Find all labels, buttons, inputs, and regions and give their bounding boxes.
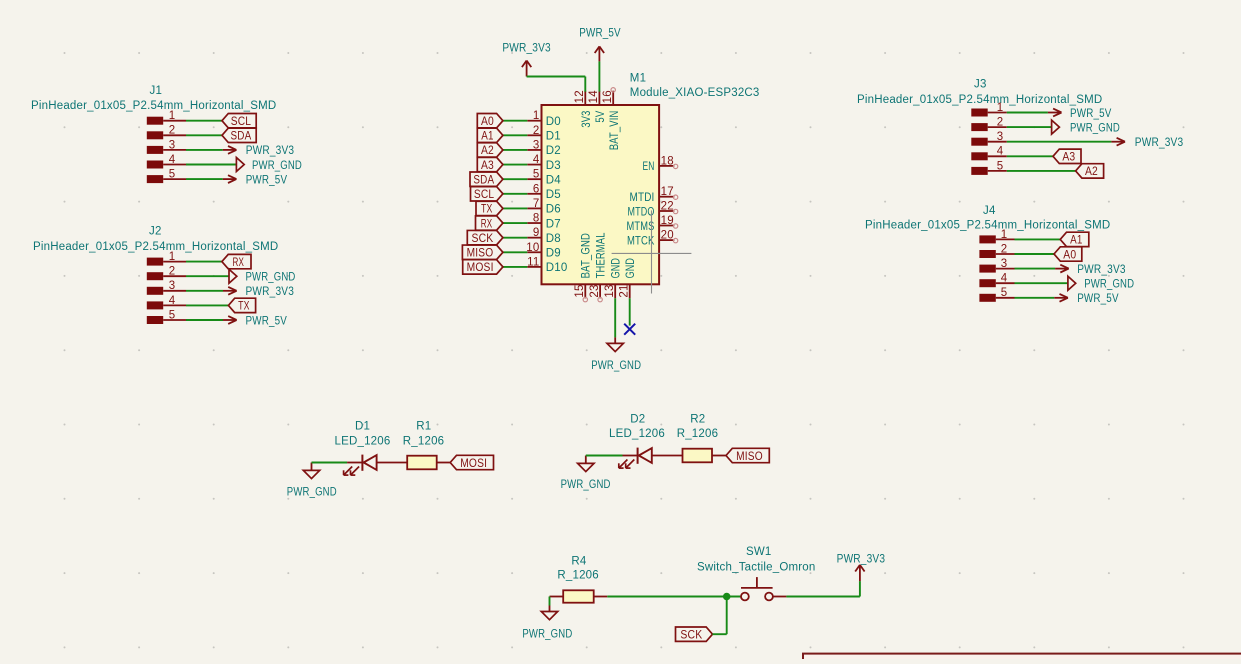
svg-text:THERMAL: THERMAL [595, 232, 607, 278]
svg-text:PWR_GND: PWR_GND [252, 160, 302, 172]
M1 pin 14 stub [598, 91, 600, 105]
resistor R1 [407, 456, 437, 470]
M1 pin 16 stub [612, 91, 614, 105]
wire J1.1 to SCL [186, 120, 222, 122]
wire J1.2 to SDA [186, 134, 222, 136]
svg-text:A1: A1 [1070, 235, 1082, 247]
global label SDA [222, 128, 256, 143]
M1 pin 15 dangling end [583, 297, 587, 301]
M1 pin 20 stub [659, 239, 674, 241]
svg-text:SDA: SDA [231, 131, 252, 143]
svg-text:GND: GND [610, 258, 622, 279]
svg-text:J3: J3 [974, 79, 987, 91]
power symbol PWR_3V3 (J4.3) [1055, 265, 1069, 273]
power symbol PWR_GND (J1.4) [236, 158, 244, 172]
J3 pad pin 3 [971, 138, 987, 146]
svg-text:3: 3 [997, 131, 1004, 143]
svg-text:D7: D7 [546, 218, 561, 230]
svg-text:PWR_3V3: PWR_3V3 [246, 286, 295, 298]
global label TX [476, 201, 503, 216]
svg-text:3V3: 3V3 [581, 111, 593, 128]
global label MISO [462, 245, 503, 259]
wire J3.1 to PWR_5V [1007, 112, 1048, 114]
svg-text:5: 5 [1001, 287, 1008, 299]
M1 pin 19 stub [659, 225, 674, 227]
LED D1 [344, 455, 377, 476]
svg-text:1: 1 [169, 110, 176, 122]
svg-text:17: 17 [661, 186, 674, 198]
M1 pin 3 (D2) line [527, 149, 541, 151]
svg-text:Module_XIAO-ESP32C3: Module_XIAO-ESP32C3 [630, 87, 760, 99]
wire J4.1 to A1 [1015, 238, 1061, 240]
M1 pin 9 (D8) line [527, 237, 541, 239]
wire A3 to M1 pin 4 [503, 164, 527, 166]
global label A3 [1053, 149, 1081, 164]
svg-text:4: 4 [1001, 273, 1008, 285]
global label RX [476, 216, 503, 231]
svg-text:6: 6 [533, 183, 540, 195]
J2 pin 2 line [163, 275, 186, 277]
M1 pin 23 stub [599, 284, 601, 298]
svg-text:PinHeader_01x05_P2.54mm_Horizo: PinHeader_01x05_P2.54mm_Horizontal_SMD [857, 94, 1102, 106]
svg-text:2: 2 [1001, 243, 1008, 255]
svg-text:4: 4 [533, 154, 540, 166]
svg-text:D2: D2 [546, 145, 561, 157]
svg-text:13: 13 [604, 284, 616, 297]
wire SW1 to PWR_3V3 (horizontal) [786, 596, 860, 598]
J2 pin 5 line [163, 319, 186, 321]
svg-text:SW1: SW1 [746, 546, 772, 558]
M1 pin 17 stub [659, 196, 674, 198]
svg-text:11: 11 [527, 256, 539, 268]
wire A0 to M1 pin 1 [503, 120, 527, 122]
svg-text:SCK: SCK [471, 233, 493, 245]
J2 pad pin 5 [147, 316, 163, 324]
J1 pin 4 line [163, 164, 186, 166]
wire J1.4 to PWR_GND [186, 164, 236, 166]
J3 pin 4 line [988, 155, 1007, 157]
svg-text:SCL: SCL [474, 189, 495, 201]
svg-text:PWR_5V: PWR_5V [1070, 108, 1112, 120]
M1 pin 20 dangling end [673, 238, 677, 242]
wire PWR_3V3 to M1 pin 12 (vertical) [584, 77, 586, 92]
svg-text:A2: A2 [1085, 166, 1098, 178]
svg-text:PinHeader_01x05_P2.54mm_Horizo: PinHeader_01x05_P2.54mm_Horizontal_SMD [31, 100, 276, 112]
wire SW1 to PWR_3V3 (vertical) [859, 581, 861, 596]
J1 pin 2 line [163, 134, 186, 136]
global label MOSI [450, 455, 493, 470]
wire J1.3 to PWR_3V3 [186, 149, 223, 151]
wire PWR_GND to D2 [586, 455, 623, 457]
J2 pin 1 line [163, 261, 186, 263]
svg-text:19: 19 [661, 215, 674, 227]
svg-text:4: 4 [169, 154, 176, 166]
wire MOSI to M1 pin 11 [503, 266, 527, 268]
svg-text:D9: D9 [546, 248, 561, 260]
global label A0 [1054, 247, 1082, 261]
global label A3 [477, 157, 503, 172]
svg-text:R_1206: R_1206 [557, 569, 598, 581]
wire J3.2 to PWR_GND [1007, 126, 1052, 128]
M1 pin 18 dangling end [673, 164, 677, 168]
J2 pin 3 line [163, 290, 186, 292]
svg-text:5V: 5V [595, 110, 607, 122]
svg-text:PWR_5V: PWR_5V [1077, 293, 1119, 305]
M1 pin 15 stub [584, 284, 586, 298]
svg-text:1: 1 [997, 102, 1004, 114]
power symbol PWR_GND (J4.4) [1068, 276, 1076, 290]
svg-text:R4: R4 [571, 555, 587, 567]
J4 pin 1 line [996, 238, 1015, 240]
M1 pin 16 dangling end [611, 88, 615, 92]
wire J2.3 to PWR_3V3 [186, 290, 223, 292]
svg-text:BAT_VIN: BAT_VIN [609, 111, 621, 151]
J4 pin 4 line [996, 282, 1015, 284]
J4 pad pin 3 [979, 265, 995, 273]
svg-text:PWR_3V3: PWR_3V3 [246, 145, 295, 157]
M1 pin 2 (D1) line [527, 134, 541, 136]
svg-text:1: 1 [533, 110, 540, 122]
svg-text:PWR_GND: PWR_GND [1084, 279, 1134, 291]
svg-text:SCK: SCK [680, 630, 702, 642]
svg-text:18: 18 [661, 155, 674, 167]
svg-text:R1: R1 [416, 421, 431, 433]
svg-text:LED_1206: LED_1206 [609, 428, 665, 440]
svg-text:A0: A0 [481, 116, 494, 128]
svg-text:SCL: SCL [231, 116, 252, 128]
M1 pin 22 stub [659, 210, 674, 212]
wire SDA to M1 pin 5 [503, 178, 527, 180]
svg-text:D3: D3 [546, 160, 561, 172]
J3 pad pin 4 [971, 152, 987, 160]
svg-text:A0: A0 [1063, 249, 1076, 261]
svg-text:A2: A2 [481, 145, 494, 157]
svg-text:D2: D2 [630, 413, 645, 425]
J1 pad pin 2 [147, 131, 163, 139]
svg-text:PWR_3V3: PWR_3V3 [502, 42, 551, 54]
power symbol PWR_GND (J2.2) [229, 269, 237, 283]
wire J2.2 to PWR_GND [186, 275, 229, 277]
svg-text:3: 3 [1001, 258, 1008, 270]
svg-text:TX: TX [238, 301, 250, 313]
M1 pin 18 stub [659, 165, 674, 167]
power symbol PWR_3V3 (top) [522, 61, 531, 77]
svg-text:3: 3 [169, 280, 176, 292]
J4 pad pin 5 [979, 294, 995, 302]
svg-text:MOSI: MOSI [460, 458, 487, 470]
svg-text:2: 2 [997, 117, 1004, 129]
wire J2.1 to RX [186, 261, 222, 263]
wire A1 to M1 pin 2 [503, 134, 527, 136]
power symbol PWR_5V (J1.5) [223, 175, 237, 183]
svg-text:1: 1 [1001, 229, 1008, 241]
M1 pin 4 (D3) line [527, 164, 541, 166]
wire D2 to R2 [652, 455, 683, 457]
svg-text:10: 10 [526, 242, 539, 254]
svg-text:1: 1 [169, 251, 176, 263]
wire J2.5 to PWR_5V [186, 319, 223, 321]
svg-text:D8: D8 [546, 233, 561, 245]
op-amp U1 body (module M1 body) [542, 105, 660, 284]
wire TX to M1 pin 7 [503, 207, 527, 209]
J3 pad pin 5 [971, 167, 987, 175]
J3 pad pin 2 [971, 123, 987, 131]
J2 pad pin 1 [147, 258, 163, 266]
J2 pad pin 4 [147, 301, 163, 309]
svg-text:21: 21 [619, 284, 631, 297]
svg-text:D0: D0 [546, 116, 561, 128]
wire J3.5 to A2 [1007, 170, 1076, 172]
hierarchical sheet border (bottom right) [803, 654, 1241, 664]
J2 pin 4 line [163, 304, 186, 306]
J4 pin 3 line [996, 268, 1015, 270]
J1 pad pin 4 [147, 161, 163, 169]
wire MISO to M1 pin 10 [503, 251, 527, 253]
wire R2 to MISO [712, 455, 726, 457]
M1 pin 11 (D10) line [527, 266, 541, 268]
J1 pin 5 line [163, 178, 186, 180]
svg-text:RX: RX [233, 257, 245, 269]
J4 pin 5 line [996, 297, 1015, 299]
M1 pin 21 stub [629, 284, 631, 298]
wire RX to M1 pin 8 [503, 222, 527, 224]
J4 pad pin 2 [979, 250, 995, 258]
global label A2 [1076, 164, 1104, 179]
svg-text:PWR_GND: PWR_GND [522, 629, 572, 641]
wire J2.4 to TX [186, 304, 228, 306]
wire D1 to R1 [377, 462, 408, 464]
svg-text:PWR_GND: PWR_GND [1070, 122, 1120, 134]
svg-text:GND: GND [625, 258, 637, 279]
SW1 right pin line [773, 596, 786, 598]
svg-text:PWR_GND: PWR_GND [246, 272, 296, 284]
global label A0 [477, 114, 503, 129]
svg-text:7: 7 [533, 198, 540, 210]
wire A2 to M1 pin 3 [503, 149, 527, 151]
svg-text:MTDO: MTDO [628, 206, 655, 218]
svg-text:BAT_GND: BAT_GND [581, 233, 593, 279]
svg-text:J4: J4 [983, 205, 996, 217]
J1 pad pin 1 [147, 117, 163, 125]
svg-text:M1: M1 [630, 72, 646, 84]
svg-text:LED_1206: LED_1206 [335, 435, 391, 447]
R4 left pin line [550, 596, 564, 598]
J3 pin 3 line [988, 141, 1007, 143]
svg-text:12: 12 [574, 90, 586, 103]
svg-text:PWR_3V3: PWR_3V3 [1077, 264, 1126, 276]
global label SCK (net SCK) [676, 627, 713, 642]
global label MOSI [463, 260, 503, 275]
global label SCL [471, 187, 503, 202]
svg-text:MOSI: MOSI [467, 262, 494, 274]
svg-text:D4: D4 [546, 174, 562, 186]
svg-text:TX: TX [481, 204, 493, 216]
J3 pin 1 line [988, 112, 1007, 114]
wire J3.4 to A3 [1007, 155, 1053, 157]
J4 pad pin 1 [979, 235, 995, 243]
resistor R2 [683, 449, 713, 463]
M1 pin 1 (D0) line [527, 120, 541, 122]
global label A1 [477, 128, 503, 143]
svg-text:20: 20 [661, 230, 674, 242]
svg-text:MTCK: MTCK [627, 235, 655, 247]
M1 pin 22 dangling end [673, 209, 677, 213]
M1 pin 17 dangling end [673, 195, 677, 199]
svg-text:9: 9 [533, 227, 540, 239]
svg-text:J2: J2 [149, 226, 162, 238]
power symbol PWR_3V3 (SW1) [855, 565, 864, 581]
svg-text:MTMS: MTMS [627, 221, 655, 233]
M1 pin 13 stub [614, 284, 616, 298]
power symbol PWR_GND (D2) [578, 456, 594, 472]
J4 pin 2 line [996, 253, 1015, 255]
wire PWR_5V to M1 pin 14 [598, 61, 600, 91]
power symbol PWR_5V (top) [595, 46, 604, 61]
svg-text:D6: D6 [546, 204, 561, 216]
global label TX [228, 298, 255, 313]
svg-text:2: 2 [533, 125, 540, 137]
svg-text:PWR_GND: PWR_GND [287, 487, 337, 499]
wire PWR_GND to D1 [312, 462, 348, 464]
J1 pad pin 3 [147, 146, 163, 154]
svg-text:MISO: MISO [736, 451, 763, 463]
J2 pad pin 3 [147, 287, 163, 295]
power symbol PWR_3V3 (J3.3) [1111, 138, 1125, 146]
global label RX [222, 254, 251, 269]
svg-text:D5: D5 [546, 189, 561, 201]
J4 pad pin 4 [979, 279, 995, 287]
svg-text:5: 5 [997, 160, 1004, 172]
svg-text:PWR_3V3: PWR_3V3 [837, 554, 886, 566]
wire J3.3 to PWR_3V3 [1007, 141, 1112, 143]
J3 pin 5 line [988, 170, 1007, 172]
R4 right pin line [594, 596, 608, 598]
svg-text:J1: J1 [150, 85, 163, 97]
svg-text:5: 5 [169, 169, 176, 181]
wire R1 to MOSI [437, 462, 451, 464]
M1 pin 10 (D9) line [527, 251, 541, 253]
svg-text:2: 2 [169, 266, 176, 278]
svg-text:A1: A1 [481, 131, 493, 143]
J3 pad pin 1 [971, 109, 987, 117]
junction node SCK [723, 593, 731, 601]
power symbol PWR_GND (M1 pin 13) [607, 337, 623, 351]
power symbol PWR_5V (J3.1) [1048, 109, 1062, 117]
svg-text:A3: A3 [481, 160, 494, 172]
global label SDA [470, 172, 503, 187]
svg-text:R_1206: R_1206 [677, 428, 718, 440]
wire SCK to M1 pin 9 [503, 237, 527, 239]
wire R4 to PWR_GND [549, 597, 551, 606]
cursor crosshair [612, 210, 692, 293]
svg-text:MTDI: MTDI [630, 192, 655, 204]
wire SCL to M1 pin 6 [503, 193, 527, 195]
J2 pad pin 2 [147, 272, 163, 280]
power symbol PWR_5V (J4.5) [1054, 294, 1068, 302]
M1 pin 23 dangling end [598, 297, 602, 301]
svg-text:8: 8 [533, 213, 540, 225]
wire J4.4 to PWR_GND [1015, 282, 1068, 284]
global label A2 [477, 143, 503, 158]
wire J4.2 to A0 [1015, 253, 1055, 255]
svg-text:R_1206: R_1206 [403, 435, 444, 447]
svg-text:15: 15 [574, 284, 586, 297]
J3 pin 2 line [988, 126, 1007, 128]
global label SCL [222, 114, 256, 129]
svg-text:MISO: MISO [467, 248, 494, 260]
wire PWR_3V3 to M1 pin 12 (horizontal) [527, 76, 586, 78]
J1 pin 3 line [163, 149, 186, 151]
wire M1 pin 13 to PWR_GND [614, 298, 616, 337]
svg-text:22: 22 [661, 200, 674, 212]
svg-text:PWR_5V: PWR_5V [579, 27, 621, 39]
power symbol PWR_GND (R4) [541, 606, 557, 620]
svg-text:23: 23 [589, 284, 601, 297]
no-connect X on M1 pin 21 [624, 324, 635, 335]
wire M1 pin 21 to no-connect [629, 298, 631, 325]
svg-text:4: 4 [997, 146, 1004, 158]
wire R4 to SW1 [607, 596, 741, 598]
svg-text:RX: RX [481, 218, 493, 230]
power symbol PWR_3V3 (J1.3) [223, 146, 237, 154]
svg-text:5: 5 [533, 169, 540, 181]
LED D2 [619, 448, 652, 469]
resistor R4 [563, 590, 594, 602]
D1 cathode pin line [347, 462, 362, 464]
wire SCK to junction (horizontal) [713, 633, 727, 635]
svg-text:PinHeader_01x05_P2.54mm_Horizo: PinHeader_01x05_P2.54mm_Horizontal_SMD [33, 241, 278, 253]
svg-text:5: 5 [169, 309, 176, 321]
svg-text:PWR_5V: PWR_5V [246, 174, 288, 186]
J1 pin 1 line [163, 120, 186, 122]
global label A1 [1060, 232, 1089, 247]
svg-text:3: 3 [533, 139, 540, 151]
svg-text:3: 3 [169, 139, 176, 151]
svg-text:14: 14 [588, 90, 600, 104]
svg-text:R2: R2 [690, 413, 705, 425]
power symbol PWR_GND (D1) [303, 463, 319, 479]
power symbol PWR_3V3 (J2.3) [223, 287, 237, 295]
svg-text:PWR_GND: PWR_GND [561, 479, 611, 491]
svg-text:SDA: SDA [473, 174, 494, 186]
M1 pin 7 (D6) line [527, 207, 541, 209]
svg-text:A3: A3 [1062, 152, 1075, 164]
M1 pin 12 stub [584, 91, 586, 105]
switch SW1 [741, 577, 773, 600]
svg-text:PWR_5V: PWR_5V [246, 315, 288, 327]
global label MISO [726, 448, 769, 463]
wire J1.5 to PWR_5V [186, 178, 223, 180]
wire J4.5 to PWR_5V [1015, 297, 1055, 299]
M1 pin 6 (D5) line [527, 193, 541, 195]
svg-text:PinHeader_01x05_P2.54mm_Horizo: PinHeader_01x05_P2.54mm_Horizontal_SMD [865, 219, 1110, 231]
M1 pin 19 dangling end [673, 224, 677, 228]
wire J4.3 to PWR_3V3 [1015, 268, 1056, 270]
svg-text:D1: D1 [355, 421, 370, 433]
power symbol PWR_GND (J3.2) [1052, 120, 1060, 134]
svg-text:PWR_GND: PWR_GND [591, 360, 641, 372]
D2 cathode pin line [623, 455, 638, 457]
M1 pin 8 (D7) line [527, 222, 541, 224]
svg-text:EN: EN [643, 161, 655, 173]
svg-text:2: 2 [169, 125, 176, 137]
svg-text:4: 4 [169, 295, 176, 307]
global label SCK [467, 230, 503, 245]
svg-text:PWR_3V3: PWR_3V3 [1135, 137, 1184, 149]
svg-text:Switch_Tactile_Omron: Switch_Tactile_Omron [697, 561, 816, 573]
M1 pin 5 (D4) line [527, 178, 541, 180]
wire SCK to junction (vertical) [726, 597, 728, 635]
